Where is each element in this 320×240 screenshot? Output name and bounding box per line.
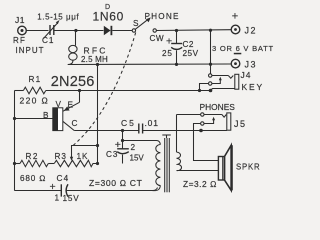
svg-text:V: V xyxy=(56,100,62,109)
svg-text:25V: 25V xyxy=(183,49,199,58)
svg-text:RF: RF xyxy=(13,36,26,45)
svg-text:1: 1 xyxy=(55,194,60,203)
svg-text:R3: R3 xyxy=(55,152,67,161)
jack J5 xyxy=(201,113,231,130)
svg-text:15V: 15V xyxy=(63,194,80,203)
svg-text:.01: .01 xyxy=(145,118,159,128)
svg-text:PHONE: PHONE xyxy=(145,12,180,21)
svg-text:C3: C3 xyxy=(106,150,118,159)
switch S xyxy=(132,17,156,32)
svg-text:E: E xyxy=(68,101,74,110)
svg-text:C5: C5 xyxy=(121,118,136,128)
speaker SPKR xyxy=(218,145,232,190)
node battery branch top xyxy=(209,29,212,32)
capacitor C4 xyxy=(61,184,68,196)
wire C1 to diode xyxy=(55,30,104,32)
wire battery branch xyxy=(210,30,212,74)
transformer T1 core xyxy=(162,135,171,192)
svg-text:J4: J4 xyxy=(241,70,252,80)
svg-text:15V: 15V xyxy=(130,154,145,163)
svg-text:1N60: 1N60 xyxy=(93,9,125,23)
node C2 top xyxy=(175,29,178,32)
wire left rail xyxy=(14,91,16,191)
connector J1 xyxy=(18,26,27,35)
wiper of R3 xyxy=(70,146,98,161)
svg-text:J2: J2 xyxy=(245,26,258,36)
svg-text:B: B xyxy=(43,111,49,120)
wire bottom rail right xyxy=(66,188,158,191)
label minus J3 xyxy=(234,53,242,55)
connector J2 xyxy=(231,25,240,34)
svg-text:25: 25 xyxy=(162,49,173,58)
node emitter xyxy=(78,89,81,92)
jack J4 xyxy=(200,74,239,91)
node R3 right xyxy=(96,162,99,165)
capacitor C2 xyxy=(171,31,182,65)
svg-text:Z=3.2 Ω: Z=3.2 Ω xyxy=(183,179,217,189)
node base tap xyxy=(13,117,16,120)
svg-text:C1: C1 xyxy=(42,36,54,45)
node wiper xyxy=(96,144,99,147)
node key left xyxy=(198,89,201,92)
wire base xyxy=(15,118,53,120)
svg-text:S: S xyxy=(133,19,139,28)
svg-text:+: + xyxy=(232,11,238,23)
connector J3 xyxy=(231,59,240,68)
capacitor C3 xyxy=(117,149,129,164)
svg-text:RFC: RFC xyxy=(84,46,108,56)
label RF INPUT xyxy=(13,36,45,55)
node rail1 left xyxy=(96,63,99,66)
diode D xyxy=(104,26,132,35)
svg-text:Z=300 Ω CT: Z=300 Ω CT xyxy=(89,178,143,188)
node primary tap xyxy=(121,139,124,142)
node key sleeve xyxy=(209,89,213,93)
svg-text:2: 2 xyxy=(131,143,136,152)
svg-text:680 Ω: 680 Ω xyxy=(20,174,46,183)
wire negative rail xyxy=(68,63,231,66)
svg-text:+: + xyxy=(50,181,56,193)
svg-text:220 Ω: 220 Ω xyxy=(20,95,50,105)
svg-text:PHONES: PHONES xyxy=(200,102,236,112)
node R2 left xyxy=(13,162,16,165)
svg-text:R1: R1 xyxy=(29,75,42,84)
wire secondary top to J5 xyxy=(177,114,201,116)
wire S to J2 xyxy=(156,29,231,32)
wire collector to C3 and primary xyxy=(122,131,124,149)
svg-text:+: + xyxy=(166,36,172,48)
resistor R2 xyxy=(15,160,55,166)
wire J5 to speaker top xyxy=(194,124,219,161)
wire R3 branch xyxy=(97,65,99,164)
svg-text:J1: J1 xyxy=(15,15,25,25)
transformer T1 primary xyxy=(153,145,161,191)
wire bottom rail left xyxy=(15,190,62,192)
svg-text:R2: R2 xyxy=(26,152,39,161)
wire primary top lead xyxy=(123,141,161,145)
svg-text:1.5-15 μμf: 1.5-15 μμf xyxy=(37,12,79,21)
svg-text:1K: 1K xyxy=(77,152,89,161)
wire collector line xyxy=(74,130,139,132)
node rail1 right xyxy=(209,63,212,66)
node rail1 C2 xyxy=(175,63,178,66)
svg-text:2.5 MH: 2.5 MH xyxy=(81,55,108,64)
svg-text:CW: CW xyxy=(150,34,165,43)
svg-text:3 OR 6 V BATT: 3 OR 6 V BATT xyxy=(212,44,274,53)
transistor V 2N256 xyxy=(53,91,80,131)
node collector tap xyxy=(121,129,124,132)
node J5 sleeve xyxy=(199,129,203,133)
svg-text:INPUT: INPUT xyxy=(16,46,45,55)
mechanical link S to R3 (dashed) xyxy=(73,33,136,147)
wire J5 sleeve xyxy=(201,130,227,132)
svg-text:C4: C4 xyxy=(57,174,70,183)
svg-text:J5: J5 xyxy=(234,119,247,129)
capacitor C1 (variable) xyxy=(44,20,60,39)
wire J1 to C1 xyxy=(27,30,49,32)
node RFC junction xyxy=(74,29,77,32)
capacitor C5 xyxy=(139,124,201,134)
transformer T1 secondary xyxy=(177,115,182,171)
label RFC 2.5 MH xyxy=(81,46,108,65)
svg-text:SPKR: SPKR xyxy=(236,163,260,172)
wire emitter rail xyxy=(46,90,211,92)
svg-text:J3: J3 xyxy=(245,59,258,69)
svg-text:C: C xyxy=(72,119,78,128)
inductor RFC xyxy=(68,31,77,65)
resistor R1 xyxy=(15,87,46,94)
wire secondary bottom to speaker xyxy=(177,170,219,172)
svg-text:C2: C2 xyxy=(183,40,194,49)
svg-text:KEY: KEY xyxy=(242,82,264,92)
svg-text:2N256: 2N256 xyxy=(51,74,95,90)
resistor R3 xyxy=(54,160,97,166)
